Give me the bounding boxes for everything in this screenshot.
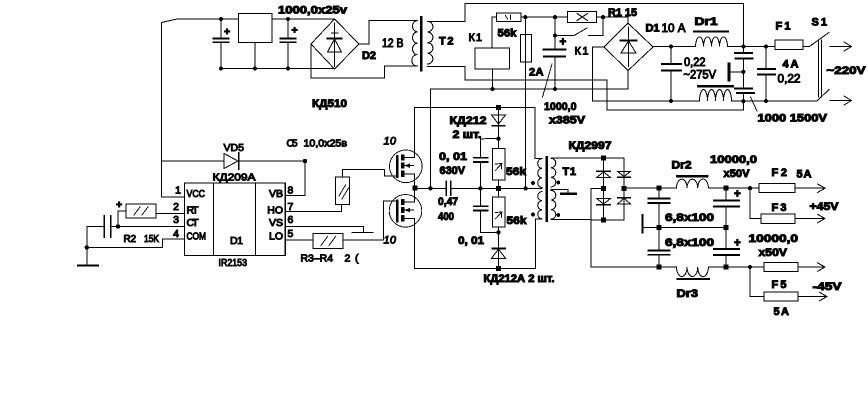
diode VD col1 upper xyxy=(597,158,610,188)
capacitor 10000,0x50V lower electrolytic xyxy=(714,227,739,267)
phase dot secondary lower xyxy=(556,213,560,217)
transformer T2 primary winding xyxy=(412,21,418,67)
svg-text:C5: C5 xyxy=(287,139,298,150)
wire: minus rail to Dr3 xyxy=(659,266,677,268)
wire: Dr2 to node xyxy=(708,187,726,189)
leader line to 1000 1500V xyxy=(751,97,758,111)
wire: plus output from col2 mid xyxy=(624,187,659,189)
node half-bridge midpoint xyxy=(412,186,417,191)
wire: Dr3 to node xyxy=(708,266,726,268)
junction filter caps top xyxy=(741,44,745,48)
fuse F3 xyxy=(761,214,795,223)
resistor 56k lower xyxy=(492,191,505,247)
wire: left vertical down to VCC pin xyxy=(162,23,185,198)
junction cap bottom / DC- rail xyxy=(553,87,557,91)
wire: pin 7 HO to gate resistor xyxy=(285,205,341,212)
wire: DC- rail y89 from bridge bottom to H-bridge tap xyxy=(431,71,629,189)
wire: N rail jog to y110 (T2 primary return) xyxy=(465,67,743,111)
svg-text:Т1: Т1 xyxy=(563,166,577,178)
wire: mid rail right of cap to T1 primary tap xyxy=(451,187,542,189)
svg-text:2: 2 xyxy=(173,201,179,213)
svg-text:КД510: КД510 xyxy=(312,98,347,110)
junction +45 branch xyxy=(748,186,752,190)
switch S1 coupling bars xyxy=(818,40,821,97)
svg-text:4А: 4А xyxy=(783,59,799,71)
junction rail/2A fuse xyxy=(523,15,527,19)
junction 0,22 cap bottom xyxy=(669,99,673,103)
svg-text:15K: 15K xyxy=(144,234,159,245)
svg-text:10: 10 xyxy=(384,235,397,247)
junction R2/CT xyxy=(116,224,120,228)
svg-text:+: + xyxy=(560,37,567,49)
wire: bridge left AC corner to mains N rail xyxy=(593,47,604,101)
svg-text:D2: D2 xyxy=(362,50,376,62)
junction cap2 top xyxy=(286,17,290,21)
junction contact/cap xyxy=(553,33,557,37)
phase dot primary lower xyxy=(531,213,535,217)
junction diode/56k/cap upper xyxy=(496,136,500,140)
junction DC- bus tap on mid rail xyxy=(428,186,432,190)
junction 0,01 caps tap xyxy=(478,186,482,190)
inductor Dr1 top winding xyxy=(694,32,728,47)
junction VD5 cathode node xyxy=(303,159,307,163)
node: VS stub bar xyxy=(352,232,373,234)
svg-text:630V: 630V xyxy=(440,165,466,177)
resistor 56k upper xyxy=(492,139,505,186)
svg-text:~220V: ~220V xyxy=(827,65,867,77)
phase dot secondary upper xyxy=(556,181,560,185)
capacitor 1000,0x25v right electrolytic xyxy=(281,19,296,69)
svg-text:КД212А 2 шт.: КД212А 2 шт. xyxy=(484,273,555,285)
chassis ground (caps midpoint) xyxy=(729,64,743,80)
IC D1 IR2153 body xyxy=(185,183,286,256)
wire: HV+ rail to T1 primary top xyxy=(535,108,542,159)
node КД212А / HV- rail xyxy=(496,266,501,271)
node mid rail cap2 xyxy=(724,225,729,230)
voltage regulator box xyxy=(239,14,273,69)
capacitor 0,01 630V upper xyxy=(474,139,499,189)
wire: 2A fuse bus down to half-bridge mid node xyxy=(525,62,527,188)
diode КД212 upper xyxy=(492,108,506,139)
wire: T2 secondary top to rail xyxy=(427,20,465,22)
svg-text:2А: 2А xyxy=(529,67,544,79)
diode inside D2 xyxy=(328,23,342,67)
svg-text:КД2997: КД2997 xyxy=(569,140,612,152)
wire: relay bottom to DC- rail xyxy=(492,69,494,89)
arrow mains bottom xyxy=(830,96,852,105)
svg-text:6,8x100: 6,8x100 xyxy=(665,212,714,224)
capacitor 1500V (bottom of series pair) xyxy=(735,89,754,102)
svg-text:x50V: x50V xyxy=(759,247,788,259)
svg-text:0, 01: 0, 01 xyxy=(439,151,467,163)
svg-text:D1: D1 xyxy=(646,23,660,35)
arrow -45V output xyxy=(798,292,827,301)
transformer T1 core xyxy=(546,157,548,221)
svg-text:4: 4 xyxy=(173,228,179,240)
wire: minus output from col1 mid xyxy=(591,189,659,267)
relay K1 coil xyxy=(475,48,510,69)
fuse 2A xyxy=(520,17,531,62)
svg-text:Dr3: Dr3 xyxy=(677,288,699,300)
junction COM/ground xyxy=(85,245,89,249)
svg-text:VS: VS xyxy=(269,217,283,229)
transformer T1 secondary lower half xyxy=(551,190,556,219)
svg-text:+: + xyxy=(734,189,741,201)
wire: D2 left AC to T2 primary bottom xyxy=(311,44,418,78)
wire: secondary top to rectifier xyxy=(551,157,624,159)
junction 2A bus / mid rail xyxy=(523,186,527,190)
resistor R HO gate (hatched) xyxy=(336,177,350,205)
fuse F2 xyxy=(759,183,795,192)
junction cap1 bottom xyxy=(219,67,223,71)
svg-text:VB: VB xyxy=(269,188,283,200)
svg-text:R1 15: R1 15 xyxy=(608,7,637,19)
resistor R2 timing xyxy=(118,204,185,227)
transformer T1 primary upper half xyxy=(538,159,542,188)
wire: +45V branch xyxy=(750,188,761,218)
switch S1 blade bottom xyxy=(817,90,829,102)
svg-text:К1: К1 xyxy=(575,46,589,58)
arrow +45V output xyxy=(795,214,825,223)
wire: T1 primary bottom to HV- rail xyxy=(536,219,542,269)
svg-text:-45V: -45V xyxy=(813,281,843,293)
junction R1 right xyxy=(601,15,605,19)
svg-text:+: + xyxy=(292,25,298,37)
svg-text:COM: COM xyxy=(187,231,207,243)
capacitor C 1000,0x385V electrolytic xyxy=(544,36,566,90)
wire: R3-R4 to Q2 gate xyxy=(343,201,397,240)
svg-text:6,8x100: 6,8x100 xyxy=(665,237,714,249)
node rectifier bottom xyxy=(601,217,606,222)
resistor R1 15 (box with X) xyxy=(568,12,597,23)
svg-text:10: 10 xyxy=(384,136,397,148)
fuse F5 xyxy=(764,292,798,301)
wire: minus rail to F4 xyxy=(726,266,764,268)
node col2 mid xyxy=(622,186,627,191)
resistor 56k (relay feed) xyxy=(492,13,525,48)
wire: secondary bottom to rectifier xyxy=(551,219,604,221)
wire: node to pin 8 VB xyxy=(285,161,305,196)
diode КД212А lower xyxy=(492,247,506,269)
wire: mid rail left of cap xyxy=(417,187,446,189)
diode VD col2 upper xyxy=(618,158,631,220)
junction 0,22 cap top xyxy=(669,44,673,48)
junction -45 branch xyxy=(748,265,752,269)
svg-text:x50V: x50V xyxy=(724,168,751,180)
svg-text:R3–R4: R3–R4 xyxy=(301,253,334,265)
svg-text:R2: R2 xyxy=(124,234,137,245)
wire: bridge right AC corner along y46.5 xyxy=(653,46,810,49)
svg-text:5А: 5А xyxy=(774,306,790,318)
capacitor 6,8x100 upper xyxy=(649,188,670,227)
wire: T2 secondary bottom to rail xyxy=(427,66,465,68)
node rectifier top xyxy=(601,156,606,161)
svg-text:56k: 56k xyxy=(507,215,528,227)
wire: mains N rail y101 xyxy=(593,100,817,102)
junction caps midpoint xyxy=(741,70,745,74)
svg-text:CT: CT xyxy=(187,217,200,229)
wire: pin 4 COM to ground node xyxy=(87,239,185,247)
transistor Q1 (upper MOSFET) xyxy=(390,150,423,183)
svg-text:+: + xyxy=(224,26,230,38)
junction cap2 bottom xyxy=(286,67,290,71)
fuse F1 xyxy=(775,40,803,50)
leader line to cap value xyxy=(543,64,553,97)
transformer T2 secondary winding xyxy=(427,21,433,64)
arrow output top xyxy=(795,184,825,193)
svg-text:IR2153: IR2153 xyxy=(219,257,248,269)
svg-text:VCC: VCC xyxy=(187,188,206,200)
capacitor 0,47 400 (DC blocking) xyxy=(446,181,450,195)
node top rail / diode chain xyxy=(496,105,501,110)
capacitor 10000,0x50V upper electrolytic xyxy=(714,188,739,227)
inductor Dr2 xyxy=(677,176,709,188)
wire: gate resistor to Q1 gate xyxy=(342,170,397,177)
ground xyxy=(78,265,98,267)
inductor Dr1 bottom winding xyxy=(698,86,732,101)
svg-text:0,22: 0,22 xyxy=(684,57,706,69)
wire: secondary center tap xyxy=(551,189,568,193)
svg-text:х385V: х385V xyxy=(549,115,586,127)
svg-text:2 шт.: 2 шт. xyxy=(453,129,482,141)
junction 0,22 right top xyxy=(764,44,768,48)
junction 0,22 right bottom xyxy=(764,99,768,103)
svg-text:56k: 56k xyxy=(506,166,527,178)
svg-text:5: 5 xyxy=(288,228,294,240)
svg-text:6: 6 xyxy=(288,214,294,226)
arrow mains top xyxy=(830,42,852,51)
wire: 0V mid rail xyxy=(644,226,727,228)
resistor R3-R4 LO gate xyxy=(313,234,343,249)
node minus rail cap1 xyxy=(657,265,662,270)
junction rail/cap 1000x385 top xyxy=(553,15,557,19)
inductor Dr3 xyxy=(677,267,710,279)
svg-text:Dr2: Dr2 xyxy=(672,160,692,172)
svg-text:~275V: ~275V xyxy=(684,70,717,82)
wire: CT to ground xyxy=(86,227,88,266)
junction cap1 top xyxy=(219,17,223,21)
diode VD col1 lower xyxy=(597,188,610,219)
wire: plus rail to F2 xyxy=(726,187,759,189)
wire: Q2 drain from mid node xyxy=(414,191,416,202)
svg-text:1: 1 xyxy=(175,185,181,197)
svg-text:56k: 56k xyxy=(498,28,518,40)
svg-text:HO: HO xyxy=(267,205,283,217)
svg-text:10 А: 10 А xyxy=(662,23,686,35)
phase dot primary upper xyxy=(531,181,535,185)
svg-text:0,47: 0,47 xyxy=(438,196,458,208)
svg-text:+45V: +45V xyxy=(810,201,840,213)
wire: pin 5 LO to R3-R4 xyxy=(285,239,313,241)
node mid rail cap1 xyxy=(657,225,662,230)
junction cap bottom / N rail xyxy=(741,99,745,103)
svg-text:400: 400 xyxy=(438,211,454,223)
capacitor 0,01 lower xyxy=(474,188,499,232)
svg-text:1000,0х25v: 1000,0х25v xyxy=(278,5,348,17)
svg-text:+: + xyxy=(734,238,741,250)
svg-text:D1: D1 xyxy=(230,235,243,247)
node 56k divider mid xyxy=(496,186,501,191)
capacitor 1000 (top of series pair) xyxy=(735,47,753,89)
diode VD5 КД209А xyxy=(162,153,305,169)
node minus rail cap2 xyxy=(724,265,729,270)
bridge rectifier D1 diamond xyxy=(604,23,653,71)
wire: -45V branch xyxy=(750,267,764,297)
wire: plus rail to Dr2 xyxy=(659,187,677,189)
svg-text:К1: К1 xyxy=(469,32,483,44)
bridge rectifier D2 diamond xyxy=(311,19,359,69)
chassis ground 0V rail xyxy=(641,215,643,233)
wire: mains L top rail (T2 primary top to filter node) xyxy=(465,4,743,47)
svg-text:Dr1: Dr1 xyxy=(695,16,718,28)
wire: pin 6 VS stub xyxy=(285,227,363,233)
wire: Q1 drain to HV+ rail xyxy=(414,108,416,158)
wire: HV+ top rail xyxy=(415,107,535,109)
junction relay / DC- rail xyxy=(491,87,495,91)
svg-text:12 В: 12 В xyxy=(382,38,404,50)
wire: HV- bottom rail xyxy=(415,267,536,269)
svg-text:8: 8 xyxy=(288,185,294,197)
svg-text:LO: LO xyxy=(269,231,283,243)
svg-text:RT: RT xyxy=(187,205,200,217)
transformer T1 secondary upper half xyxy=(551,158,556,187)
wire: Q2 source to HV- rail xyxy=(414,218,416,268)
arrow output bottom xyxy=(798,263,825,272)
svg-text:10,0х25в: 10,0х25в xyxy=(304,139,348,150)
capacitor 1000,0x25v left electrolytic xyxy=(214,19,229,69)
svg-text:КД209А: КД209А xyxy=(213,172,256,184)
chassis ground T1 center tap xyxy=(561,193,576,195)
transistor Q2 (lower MOSFET) xyxy=(389,195,422,228)
relay contact K1 (bypasses R1) xyxy=(555,17,603,35)
diode inside D1 xyxy=(621,27,637,67)
svg-text:3: 3 xyxy=(173,214,179,226)
transformer T1 primary lower half xyxy=(538,192,542,219)
svg-text:1000,0: 1000,0 xyxy=(544,101,577,113)
wire: Q1 source to mid node xyxy=(414,174,416,186)
capacitor 0,22 (across mains) xyxy=(758,47,775,102)
wire: +12V rail xyxy=(162,19,335,23)
wire: aux minus rail xyxy=(221,68,335,70)
diode VD col2 lower xyxy=(604,198,631,220)
svg-text:10000,0: 10000,0 xyxy=(710,154,757,166)
svg-text:VD5: VD5 xyxy=(224,142,245,154)
node plus rail cap2 xyxy=(724,186,729,191)
node col1 mid xyxy=(601,186,606,191)
wire: DC+ rail y17 (2A fuse to R1 and bridge top) xyxy=(525,17,628,24)
switch S1 blade top xyxy=(810,32,830,46)
svg-text:+: + xyxy=(116,199,122,211)
node plus rail cap1 xyxy=(657,186,662,191)
svg-text:0,22: 0,22 xyxy=(778,74,801,86)
svg-text:10000,0: 10000,0 xyxy=(749,233,799,245)
fuse F4 xyxy=(764,262,798,271)
svg-text:0, 01: 0, 01 xyxy=(458,235,484,247)
svg-text:КД212: КД212 xyxy=(450,115,487,127)
svg-text:5А: 5А xyxy=(797,169,812,181)
svg-text:1000 1500V: 1000 1500V xyxy=(758,113,828,125)
transformer T2 core xyxy=(420,17,422,71)
capacitor 6,8x100 lower xyxy=(649,227,670,267)
junction regulator bottom xyxy=(253,67,257,71)
capacitor CT timing xyxy=(87,216,185,237)
junction lower cap tap xyxy=(496,230,500,234)
capacitor 0,22 ~275V xyxy=(662,47,681,102)
wire: D2 right AC to T2 primary top xyxy=(359,21,418,45)
